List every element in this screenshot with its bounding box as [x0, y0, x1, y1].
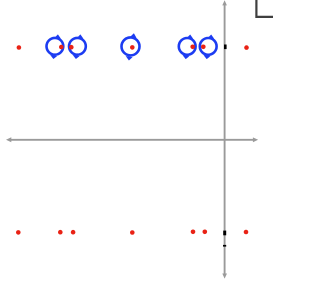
bottom row dot 1 [16, 230, 21, 235]
vortex circle C4 [179, 35, 196, 60]
top row dot 2 [59, 45, 64, 50]
small dash on y-axis below bottom row [223, 245, 226, 247]
top row dot 6 [201, 45, 206, 50]
top row dot 7 [244, 45, 249, 50]
vortex circle C1 [47, 34, 64, 59]
vortex circle C5 [200, 35, 217, 60]
x-axis line [9, 139, 255, 141]
inset box corner (top right) [256, 0, 273, 17]
y-axis line [224, 4, 226, 276]
bottom row dot 6 [203, 230, 208, 235]
top row dot 5 [190, 45, 195, 50]
bottom row dot 4 [130, 230, 135, 235]
x-axis left arrowhead [6, 137, 11, 142]
bottom row dot 2 [58, 230, 63, 235]
tick mark on y-axis at top row height [224, 45, 227, 50]
y-axis bottom arrowhead [222, 274, 227, 279]
bottom row dot 7 [244, 230, 249, 235]
top row dot 4 [130, 45, 135, 50]
top row dot 1 [17, 45, 22, 50]
tick mark on y-axis at bottom row height [223, 231, 226, 236]
bottom row dot 3 [71, 230, 76, 235]
x-axis right arrowhead [253, 137, 258, 142]
top row dot 3 [69, 45, 74, 50]
vortex circle C2 [69, 34, 86, 59]
y-axis top arrowhead [222, 0, 227, 5]
vortex circle C3 [122, 33, 140, 60]
bottom row dot 5 [191, 230, 196, 235]
